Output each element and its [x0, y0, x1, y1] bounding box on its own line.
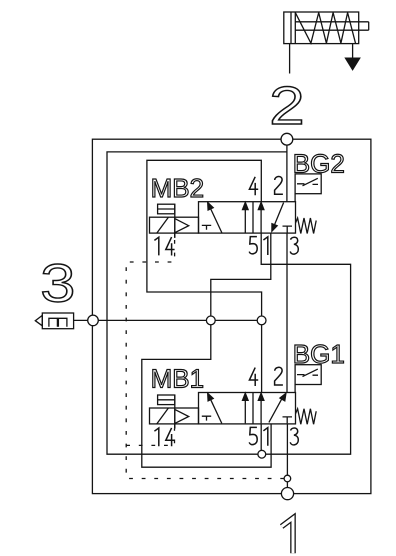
MB2 position divider — [252, 202, 254, 233]
MB1 position divider — [252, 393, 254, 424]
MB2 manual override box — [158, 204, 175, 214]
sensor BG1 box — [295, 365, 321, 385]
MB1 flow up arrow a — [244, 396, 246, 423]
MB2 actuator divider — [174, 204, 176, 238]
MB1 port label 3 — [290, 428, 298, 445]
sensor BG2 box — [295, 174, 321, 194]
MB1 flow up arrow b — [260, 396, 262, 423]
junction node on inner boundary wire — [258, 450, 266, 458]
connection label 1 — [282, 518, 293, 553]
BG2 switch contact — [297, 178, 318, 186]
svg-text:BG2: BG2 — [293, 148, 345, 178]
node: connection 1 on outer frame — [281, 488, 293, 500]
MB1 manual override box — [158, 395, 175, 405]
wire cylinder port to connection 2 — [289, 44, 291, 74]
exhaust line at cylinder rod side — [352, 44, 354, 59]
cylinder piston — [290, 12, 292, 44]
inner boundary wire: top edge — [107, 152, 351, 454]
MB2 pilot triangle — [175, 219, 189, 233]
wire: MB1 port 3 down to connection 1 — [286, 424, 288, 494]
svg-text:MB2: MB2 — [151, 173, 204, 203]
svg-text:3: 3 — [40, 254, 75, 314]
valve MB1 body (5/2-way) — [199, 393, 296, 424]
MB2 port label 5 — [249, 237, 257, 254]
MB1 right flow diagonal arrow (1 to 2) — [269, 397, 283, 422]
svg-text:2: 2 — [269, 76, 304, 136]
MB1 port label 2 — [275, 367, 283, 385]
MB1 actuator box — [150, 408, 199, 424]
cylinder piston rod — [295, 21, 368, 23]
MB1 port label 1 — [263, 428, 267, 446]
cylinder MM1 barrel (single-acting, spring return) — [284, 12, 359, 44]
node: connection 2 on outer frame — [281, 133, 293, 145]
node: connection 3 on outer frame — [88, 315, 99, 326]
exhaust connector 3: silencer body — [42, 313, 73, 329]
MB2 port label 3 — [290, 237, 298, 254]
MB2 pilot label 14 — [154, 237, 158, 255]
MB2 return spring — [296, 218, 317, 234]
outer frame (valve terminal boundary) — [92, 139, 371, 493]
MB2 port label 4 — [249, 177, 258, 195]
silencer filter element — [49, 318, 58, 327]
MB1 blocked port T right — [283, 417, 293, 424]
MB1 pilot label 14 — [154, 428, 158, 446]
MB2 flow up arrow b — [260, 206, 262, 233]
BG1 switch contact — [297, 369, 318, 377]
dashed pilot line: MB2 pilot 12 stub — [174, 233, 176, 238]
MB1 pilot triangle — [175, 409, 189, 423]
MB2 blocked port T right — [283, 226, 293, 233]
dashed pilot line net — [126, 240, 284, 479]
MB1 actuator divider — [174, 395, 176, 429]
MB1 blocked port T left — [202, 416, 211, 420]
MB1 pilot 12 stub — [174, 424, 176, 429]
exhaust supply line 3 — [93, 319, 262, 321]
MB1 port label 4 — [249, 368, 258, 386]
MB1 return spring — [296, 409, 317, 425]
svg-text:MB1: MB1 — [151, 364, 204, 394]
wire: MB1 bottom port to junction node — [260, 424, 262, 450]
wire: node 2 to MB2 port 2 — [286, 139, 288, 202]
cylinder return spring — [295, 13, 355, 44]
MB2 right flow diagonal arrow (2 to 1) — [274, 203, 284, 228]
wire: MB2 port 3 down to MB1 port 2 — [286, 233, 288, 392]
MB2 port label 2 — [275, 177, 283, 195]
MB1 left flow diagonal arrow — [209, 397, 222, 424]
valve MB2 body (5/2-way) — [199, 202, 296, 233]
junction node pilot line to port 3 of MB1 — [284, 475, 291, 482]
wire silencer to node 3 — [74, 319, 93, 321]
silencer nozzle triangle — [35, 315, 42, 325]
MB2 actuator box — [150, 217, 199, 233]
MB2 blocked port T left — [202, 225, 211, 229]
wire: MB2 port 1 down-left to junction node — [211, 233, 271, 320]
MB2 solenoid coil diagonal — [157, 217, 169, 233]
wire: node down to MB1 port 4 — [261, 320, 263, 392]
svg-text:BG1: BG1 — [293, 339, 345, 369]
MB2 flow up arrow a — [244, 206, 246, 233]
MB2 left flow diagonal arrow — [209, 206, 222, 233]
MB2 port label 1 — [263, 237, 267, 255]
wire: junction node down to MB1 port 1 — [142, 320, 271, 467]
exhaust arrow (silencer) — [346, 58, 360, 69]
wire: MB2 port 4 loop to supply node — [147, 160, 262, 320]
MB1 solenoid coil diagonal — [157, 408, 169, 424]
junction node on exhaust line (MB2/MB1 port 1) — [206, 316, 215, 325]
junction node end of exhaust line (port 4 riser) — [257, 316, 266, 325]
MB1 port label 5 — [249, 427, 257, 444]
